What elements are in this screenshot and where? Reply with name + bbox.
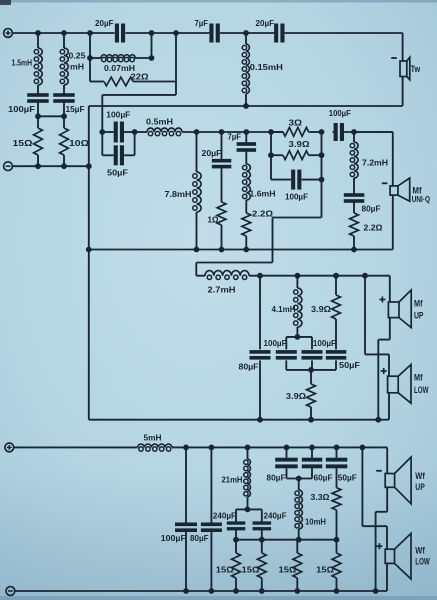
label 20uF 2 xyxy=(256,18,275,28)
wire section2 feed drop xyxy=(102,33,176,155)
resistor 3ohm xyxy=(283,127,309,136)
svg-text:7.2mH: 7.2mH xyxy=(362,158,388,168)
inductor 0.25mH xyxy=(60,48,68,85)
svg-text:10Ω: 10Ω xyxy=(69,138,89,148)
node s3 bottom 3.9 xyxy=(308,417,314,423)
svg-text:100µF: 100µF xyxy=(285,192,308,202)
svg-text:240µF: 240µF xyxy=(264,511,287,521)
label 4.1mH xyxy=(272,304,296,314)
svg-text:50µF: 50µF xyxy=(338,473,357,483)
node LF bottom 15d xyxy=(334,588,340,594)
resistor 2.2ohm mid xyxy=(242,213,251,236)
node 20uF tap xyxy=(219,129,225,135)
speaker Mf LOW xyxy=(388,365,411,404)
node 1.5mH tap xyxy=(35,30,41,36)
wire caps top bus s3 xyxy=(286,337,312,350)
input terminal - (LF) xyxy=(6,587,15,596)
node ground minus rail xyxy=(86,163,92,169)
node mid bottom 2.2ohm xyxy=(243,247,249,253)
svg-text:Wf: Wf xyxy=(415,546,425,556)
svg-text:3Ω: 3Ω xyxy=(289,118,303,128)
node mid bottom 1ohm xyxy=(219,247,225,253)
inductor 7.8mH xyxy=(193,172,201,212)
wire 240uF bottoms xyxy=(236,530,262,540)
label 80uF mid xyxy=(362,204,381,214)
wire RL inductor row xyxy=(90,57,152,59)
wire minus rail HF xyxy=(12,165,88,167)
polarity - Wf UP xyxy=(376,470,382,472)
label 2.7mH xyxy=(208,285,236,295)
node 7uF tap xyxy=(243,129,249,135)
wire 20uF branch xyxy=(221,132,223,250)
svg-text:22Ω: 22Ω xyxy=(131,72,149,82)
wire 240uF top bus xyxy=(236,509,262,522)
label 0.07mH xyxy=(104,63,135,73)
svg-text:LOW: LOW xyxy=(415,557,430,567)
node 80uF top tap xyxy=(284,445,290,451)
svg-text:2.7mH: 2.7mH xyxy=(208,285,236,295)
resistor 15ohm a xyxy=(232,553,241,578)
node LF bottom 15a xyxy=(233,588,239,594)
svg-text:1.5mH: 1.5mH xyxy=(12,58,33,68)
label 50uF s3 xyxy=(339,360,360,370)
wire cross link xyxy=(38,115,64,117)
svg-text:10mH: 10mH xyxy=(305,517,326,527)
polarity - Tw xyxy=(391,57,397,59)
svg-text:3.9Ω: 3.9Ω xyxy=(289,139,310,149)
node LF bottom 100uF xyxy=(183,588,189,594)
capacitor 50uF s3 xyxy=(326,350,347,360)
label 7uF mid xyxy=(228,132,242,142)
node cross left xyxy=(35,113,41,119)
label Wf UP xyxy=(415,471,425,492)
inductor 7.2mH xyxy=(350,142,358,178)
node section2 feed xyxy=(173,30,179,36)
label 3.9ohm s3 bottom xyxy=(286,391,306,401)
node 100uF LF tap xyxy=(183,445,189,451)
wire LF rail b xyxy=(172,446,387,448)
node mid bottom RC xyxy=(351,247,357,253)
node LF bottom 80uF xyxy=(209,588,215,594)
label 7uF xyxy=(195,18,209,28)
resistor 22ohm xyxy=(104,77,133,86)
capacitor 50uF top xyxy=(326,458,348,469)
wire Rblock xyxy=(271,132,322,218)
capacitor 7uF series HF xyxy=(209,24,219,43)
svg-text:0.15mH: 0.15mH xyxy=(250,62,283,72)
label 100uF LF xyxy=(161,533,186,543)
resistor 3.9ohm mid xyxy=(283,151,309,160)
svg-text:2.2Ω: 2.2Ω xyxy=(364,223,383,233)
wire 7.8mH branch xyxy=(196,132,198,250)
wire 100uF LF branch xyxy=(185,447,187,591)
label 5mH xyxy=(144,432,162,442)
wire LF rail a xyxy=(14,446,138,448)
label 0.5mH xyxy=(146,117,173,127)
node Rblock right mid xyxy=(319,152,325,158)
wire section3 feed xyxy=(196,218,321,276)
svg-text:80µF: 80µF xyxy=(239,362,259,372)
node 60uF top tap xyxy=(309,445,315,451)
wire 21mH branch xyxy=(247,447,249,509)
polarity + Wf LOW xyxy=(376,543,382,549)
wire mid rail a xyxy=(135,131,147,133)
capacitor 7uF mid shunt xyxy=(237,142,257,152)
node 50uF top tap xyxy=(334,445,340,451)
label 100uF s3 b xyxy=(313,338,336,348)
label 100uF xyxy=(8,104,35,114)
wire 7uF branch xyxy=(245,132,247,250)
svg-text:80µF: 80µF xyxy=(267,473,286,483)
wire 1.5mH branch xyxy=(37,33,39,95)
inductor 0.07mH xyxy=(101,55,135,62)
node 0.07mH right xyxy=(149,55,155,61)
svg-text:20µF: 20µF xyxy=(95,18,114,28)
svg-text:Mf: Mf xyxy=(414,298,423,308)
svg-text:50µF: 50µF xyxy=(107,168,128,178)
label 1ohm xyxy=(208,215,219,225)
node 7.2mH tap xyxy=(351,129,357,135)
label 10ohm xyxy=(69,138,89,148)
node bottom bus s3 xyxy=(308,367,314,373)
node minus rail 15ohm xyxy=(35,163,41,169)
node Rblock left mid xyxy=(268,152,274,158)
node LF bottom 15b xyxy=(259,588,265,594)
svg-text:15Ω: 15Ω xyxy=(13,138,33,148)
capacitor 100uF Rblock xyxy=(291,170,301,190)
svg-text:15Ω: 15Ω xyxy=(279,565,297,575)
wire 50uF top branch xyxy=(336,447,338,487)
label 2.2ohm mid xyxy=(252,209,273,219)
resistor 15ohm b xyxy=(257,553,266,578)
svg-text:50µF: 50µF xyxy=(339,360,360,370)
wire ground vertical xyxy=(88,106,90,420)
node s3 bottom 80uF xyxy=(257,417,263,423)
label 3.9ohm mid xyxy=(289,139,310,149)
label 100uF Rblock xyxy=(285,192,308,202)
wire mid bottom rail xyxy=(89,249,393,251)
node bus 10mH xyxy=(296,537,302,543)
wire 7.2mH branch xyxy=(353,132,355,250)
wire WfUP loop xyxy=(376,447,388,591)
svg-text:3.9Ω: 3.9Ω xyxy=(311,304,331,314)
wire resistors to minus rail xyxy=(38,155,64,166)
wire mid rail b xyxy=(182,131,393,133)
capacitor 100uF s3 b xyxy=(302,350,323,360)
svg-text:100µF: 100µF xyxy=(264,338,287,348)
resistor 10ohm xyxy=(60,128,69,155)
svg-text:Mf: Mf xyxy=(414,373,423,383)
node 10mH top xyxy=(296,476,302,482)
label 240uF b xyxy=(264,511,287,521)
label 0.15mH xyxy=(250,62,283,72)
node 21mH tap xyxy=(245,445,251,451)
label 100uF s3 a xyxy=(264,338,287,348)
wire caps to resistors xyxy=(38,102,64,128)
svg-text:0.25: 0.25 xyxy=(69,51,86,61)
speaker Tw xyxy=(400,57,410,79)
label 15ohm a xyxy=(216,565,234,575)
node 4.1mH tap xyxy=(295,273,301,279)
label 240uF a xyxy=(213,511,236,521)
capacitor 100uF mid in xyxy=(114,122,124,143)
label 80uF s3 xyxy=(239,362,259,372)
node 3.9 tap s3 xyxy=(333,273,339,279)
label 3.3ohm xyxy=(311,492,330,502)
wire LF mid bus xyxy=(236,539,337,541)
resistor 3.3ohm xyxy=(332,488,341,510)
polarity + Mf UP xyxy=(379,297,385,303)
wire 15ohm stems xyxy=(236,540,337,591)
wire caps bottom bus s3 xyxy=(286,360,336,370)
wire WfLOW feed xyxy=(362,447,387,591)
wire 3.3ohm bottom xyxy=(336,510,338,540)
speaker Wf UP xyxy=(385,457,411,504)
wire 0.15mH branch xyxy=(245,33,247,106)
node 0.07mH left xyxy=(87,55,93,61)
wire 3.9ohm s3 bottom branch xyxy=(310,370,312,420)
svg-text:mH: mH xyxy=(70,62,84,72)
polarity - UNI-Q xyxy=(382,182,388,184)
svg-text:1.6mH: 1.6mH xyxy=(250,189,276,199)
svg-text:15µF: 15µF xyxy=(66,104,85,114)
label 15ohm xyxy=(13,138,33,148)
label 20uF mid xyxy=(202,148,222,158)
label 50uF top xyxy=(338,473,357,483)
node Rblock left top xyxy=(268,129,274,135)
label 60uF top xyxy=(314,473,333,483)
node LF bottom 15c xyxy=(294,588,300,594)
wire MfLOW feed xyxy=(365,276,389,420)
wire tweeter loop xyxy=(89,33,403,106)
node RL block left xyxy=(87,30,93,36)
svg-text:100µF: 100µF xyxy=(329,108,351,118)
wire 10mH link xyxy=(287,478,313,480)
label 22ohm xyxy=(131,72,149,82)
label 50uF mid xyxy=(107,168,128,178)
node Rblock right top xyxy=(319,129,325,135)
wire 22ohm row xyxy=(90,81,176,83)
svg-text:3.3Ω: 3.3Ω xyxy=(311,492,330,502)
node 0.25mH tap xyxy=(61,30,67,36)
svg-text:80µF: 80µF xyxy=(362,204,381,214)
node cap block left xyxy=(99,129,105,135)
label 7.2mH xyxy=(362,158,388,168)
label 15ohm c xyxy=(279,565,297,575)
wire 3.9 branch s3 xyxy=(335,276,337,350)
node cross right xyxy=(61,113,67,119)
speaker Wf LOW xyxy=(385,533,411,579)
svg-text:100µF: 100µF xyxy=(106,110,130,120)
wire 80uF branch s3 xyxy=(259,276,261,420)
svg-text:60µF: 60µF xyxy=(314,473,333,483)
node bus 240b xyxy=(259,537,265,543)
resistor 2.2ohm mid2 xyxy=(350,213,359,236)
label 21mH xyxy=(222,475,243,485)
capacitor 80uF LF xyxy=(201,523,222,533)
input terminal - (HF) xyxy=(4,162,13,171)
capacitor 240uF a xyxy=(227,521,246,530)
wire section3 rail xyxy=(249,275,390,277)
label 80uF LF xyxy=(190,533,209,543)
svg-text:100µF: 100µF xyxy=(161,533,186,543)
wire top rail HF xyxy=(12,32,402,34)
svg-text:4.1mH: 4.1mH xyxy=(272,304,296,314)
label 7.8mH xyxy=(165,189,192,199)
svg-text:15Ω: 15Ω xyxy=(216,565,234,575)
polarity + Mf LOW xyxy=(381,368,387,374)
label Mf LOW xyxy=(414,373,429,396)
resistor 3.9ohm s3 bottom xyxy=(307,384,316,407)
svg-text:20µF: 20µF xyxy=(256,18,275,28)
wire 0.25mH branch xyxy=(63,33,65,95)
label 80uF top xyxy=(267,473,286,483)
wire 80uF top branch xyxy=(286,447,288,478)
inductor 2.7mH xyxy=(205,271,249,280)
svg-text:3.9Ω: 3.9Ω xyxy=(286,391,306,401)
label 2.2ohm mid2 xyxy=(364,223,383,233)
capacitor 80uF mid xyxy=(344,193,365,203)
svg-text:20µF: 20µF xyxy=(202,148,222,158)
wire section3 bottom rail xyxy=(89,419,389,421)
svg-text:7µF: 7µF xyxy=(195,18,209,28)
svg-text:7.8mH: 7.8mH xyxy=(165,189,192,199)
capacitor 100uF HF shunt xyxy=(27,93,49,103)
inductor 1.5mH xyxy=(34,48,42,85)
capacitor 100uF mid series xyxy=(334,123,344,141)
label 100uF mid xyxy=(106,110,130,120)
svg-text:5mH: 5mH xyxy=(144,432,162,442)
node MfLOW tap xyxy=(362,273,368,279)
label Wf LOW xyxy=(415,546,430,567)
capacitor 20uF series HF xyxy=(115,24,125,43)
node RL block right xyxy=(149,30,155,36)
svg-text:15Ω: 15Ω xyxy=(242,565,260,575)
capacitor 60uF top xyxy=(302,458,323,469)
label Mf UNI-Q xyxy=(412,186,431,205)
node bus 240a xyxy=(233,537,239,543)
wire 10mH branch xyxy=(298,479,300,540)
label 3.9ohm s3 top xyxy=(311,304,331,314)
resistor 15ohm d xyxy=(332,553,341,578)
label 15ohm d xyxy=(316,565,334,575)
speaker Mf UP xyxy=(388,290,411,328)
svg-text:240µF: 240µF xyxy=(213,511,236,521)
svg-text:Tw: Tw xyxy=(411,64,421,75)
svg-text:UP: UP xyxy=(414,310,424,320)
wire RL block verticals xyxy=(90,33,152,82)
wire 4.1mH branch xyxy=(296,276,298,337)
wire MfUP feed xyxy=(378,276,390,420)
resistor 1ohm xyxy=(217,202,226,225)
label Mf UP xyxy=(414,298,424,320)
inductor 21mH xyxy=(244,459,251,497)
capacitor 240uF b xyxy=(253,521,272,530)
capacitor 15uF HF shunt xyxy=(53,93,74,103)
node 0.15mH bottom xyxy=(243,103,249,109)
label 15uF xyxy=(66,104,85,114)
capacitor 20uF series HF 2 xyxy=(274,24,284,43)
svg-text:80µF: 80µF xyxy=(190,533,209,543)
svg-text:7µF: 7µF xyxy=(228,132,242,142)
capacitor 20uF mid shunt xyxy=(212,159,232,169)
node 80uF tap s3 xyxy=(257,273,263,279)
label 0.25 mH xyxy=(69,51,86,72)
svg-text:Wf: Wf xyxy=(415,471,425,481)
svg-text:100µF: 100µF xyxy=(313,338,336,348)
node cap block right xyxy=(132,129,138,135)
label 15ohm b xyxy=(242,565,260,575)
wire 60uF top branch xyxy=(311,447,313,478)
svg-text:1Ω: 1Ω xyxy=(208,215,219,225)
inductor 1.6mH xyxy=(243,164,251,200)
node 0.15mH tap xyxy=(243,30,249,36)
capacitor 50uF mid in xyxy=(114,145,124,165)
capacitor 100uF LF xyxy=(175,523,197,533)
svg-text:15Ω: 15Ω xyxy=(316,565,334,575)
svg-text:UNI·Q: UNI·Q xyxy=(412,194,431,204)
node Rblock right low xyxy=(319,177,325,183)
label 3ohm xyxy=(289,118,303,128)
wire UNI-Q loop xyxy=(354,132,393,250)
input terminal + (HF) xyxy=(4,29,13,38)
label 10mH xyxy=(305,517,326,527)
node s3 bottom MfUP xyxy=(375,417,381,423)
node WfLOW tap xyxy=(360,445,366,451)
capacitor 80uF top xyxy=(275,458,298,469)
inductor 0.5mH xyxy=(147,128,182,136)
label Tw xyxy=(411,64,421,75)
node 4.1mH bottom xyxy=(295,334,301,340)
wire 80uF LF branch xyxy=(210,447,212,591)
node 21mH bottom xyxy=(245,507,251,513)
capacitor 80uF s3 xyxy=(250,350,271,360)
resistor 15ohm c xyxy=(293,553,302,578)
node 80uF LF tap xyxy=(209,445,215,451)
wire cap block xyxy=(102,132,134,155)
wire LF bottom rail xyxy=(15,590,387,592)
node mid bottom 7.8mH xyxy=(194,247,200,253)
input terminal + (LF) xyxy=(5,443,14,452)
inductor 5mH xyxy=(138,444,172,451)
node mid bottom ground xyxy=(86,247,92,253)
label 1.6mH xyxy=(250,189,276,199)
svg-text:2.2Ω: 2.2Ω xyxy=(252,209,273,219)
node 7.8mH tap xyxy=(194,129,200,135)
label 1.5mH xyxy=(12,58,33,68)
resistor 15ohm xyxy=(34,128,43,155)
svg-text:UP: UP xyxy=(415,482,425,492)
svg-text:0.5mH: 0.5mH xyxy=(146,117,173,127)
label 100uF mid series xyxy=(329,108,351,118)
svg-text:21mH: 21mH xyxy=(222,475,243,485)
inductor 10mH xyxy=(295,490,303,529)
label 20uF xyxy=(95,18,114,28)
inductor 4.1mH xyxy=(294,288,302,327)
svg-text:100µF: 100µF xyxy=(8,104,35,114)
svg-text:LOW: LOW xyxy=(414,385,429,395)
capacitor 100uF s3 a xyxy=(276,350,297,360)
resistor 3.9ohm s3 top xyxy=(332,295,341,319)
inductor 0.15mH xyxy=(242,44,249,94)
speaker Mf UNI-Q xyxy=(390,178,410,201)
node minus rail 10ohm xyxy=(61,163,67,169)
node LF bottom WfUP xyxy=(373,588,379,594)
node bus 3.3 xyxy=(334,537,340,543)
